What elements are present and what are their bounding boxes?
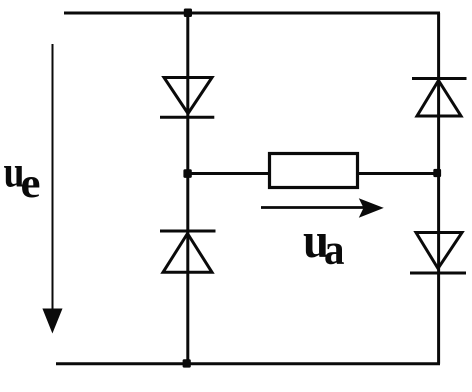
svg-text:e: e (21, 161, 41, 207)
svg-text:a: a (324, 227, 345, 274)
